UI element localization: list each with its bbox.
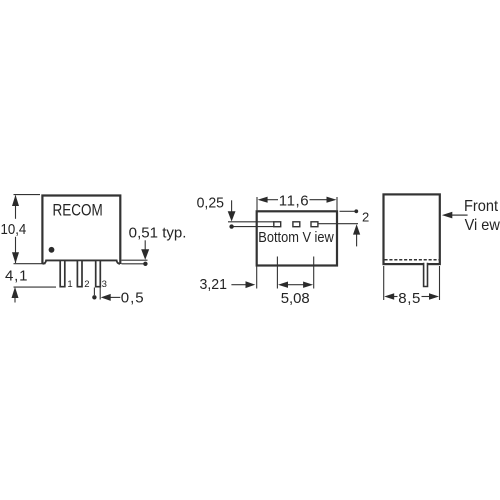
dim 8,5 left extension line: [383, 266, 385, 300]
dim 5,08 left extension line: [276, 257, 278, 289]
dim 11,6 left extension line: [256, 197, 258, 210]
svg-text:3: 3: [102, 279, 107, 290]
svg-text:1: 1: [67, 279, 72, 290]
svg-text:10,4: 10,4: [1, 221, 27, 238]
bottom view pad 2: [293, 222, 300, 227]
dim 8,5 right arrowhead: [429, 293, 439, 300]
dim 10,4 bottom arrowhead: [12, 252, 19, 263]
dim 0,51 lower reference line: [122, 263, 146, 265]
pin 2 (side view): [77, 260, 82, 287]
dim 10,4 top arrowhead: [12, 195, 19, 206]
svg-text:4,1: 4,1: [5, 268, 28, 285]
dim 5,08 left arrowhead: [278, 282, 288, 288]
front view pin: [424, 263, 428, 287]
svg-text:3,21: 3,21: [200, 276, 228, 293]
dim 0,5 right witness line: [99, 288, 101, 300]
dim 10,4 top extension line: [14, 194, 41, 196]
dim 4,1 bottom arrow: [14, 297, 16, 303]
dim 0,51 dot: [143, 262, 147, 266]
dim 2 top reference line with dot: [340, 210, 356, 212]
dim 5,08 dimension line: [288, 284, 304, 286]
pin 1 (side view): [60, 260, 65, 287]
svg-text:Vi ew: Vi ew: [465, 217, 500, 234]
svg-text:0,51 typ.: 0,51 typ.: [129, 225, 187, 242]
svg-text:RECOM: RECOM: [53, 202, 103, 220]
dim 11,6 dimension line right: [310, 199, 328, 201]
svg-text:Front: Front: [464, 198, 499, 215]
front view label arrow: [452, 214, 468, 216]
dim 10,4 / 4,1 shared extension line: [14, 263, 46, 265]
dim 4,1 lower extension line: [14, 286, 57, 288]
svg-text:Bottom V iew: Bottom V iew: [258, 230, 334, 246]
dim 0,5 left witness line with dot: [93, 288, 95, 296]
side view body bottom standoff line: [43, 260, 121, 263]
dim 11,6 right extension line: [336, 197, 338, 210]
svg-text:11,6: 11,6: [279, 193, 309, 210]
dim 2 up arrow: [356, 234, 358, 246]
dim 8,5 left arrowhead: [384, 293, 394, 300]
dim 8,5 dimension line left: [394, 296, 398, 298]
dim 5,08 right arrowhead: [303, 282, 313, 288]
dim 3,21 extension line (box left edge): [256, 267, 258, 289]
dim 3,21 leader arrow: [231, 284, 246, 286]
dim 0,25 pad bottom line: [232, 226, 274, 228]
pin 3 (side view): [96, 260, 101, 287]
dim 0,25 dot: [229, 224, 233, 228]
dim 5,08 right extension line: [313, 257, 315, 289]
dim 8,5 right extension line: [439, 266, 441, 300]
dim 2 pad level line: [318, 223, 358, 225]
front view body outline: [384, 194, 440, 264]
svg-text:2: 2: [362, 209, 369, 224]
svg-text:2: 2: [84, 279, 89, 290]
dim 0,25 leader arrow: [231, 200, 233, 212]
bottom view pad 3: [311, 222, 318, 227]
dim 11,6 dimension line left: [267, 199, 278, 201]
bottom view pad 1: [274, 222, 281, 227]
svg-text:5,08: 5,08: [281, 290, 310, 307]
dim 0,25 pad top line: [228, 221, 274, 223]
svg-text:0,5: 0,5: [121, 289, 144, 306]
dim 11,6 left arrowhead: [258, 197, 268, 203]
bottom view body outline: [257, 211, 337, 265]
dim 8,5 dimension line right: [422, 296, 431, 298]
front view seating dashed line: [385, 259, 440, 261]
dim 0,5 arrow: [110, 296, 120, 298]
side view body outline: [42, 196, 120, 265]
svg-text:8,5: 8,5: [398, 290, 420, 307]
dim 11,6 right arrowhead: [327, 197, 337, 203]
dim 0,51 upper reference line: [122, 259, 148, 261]
svg-text:0,25: 0,25: [197, 194, 224, 211]
dim 10,4 dimension line: [15, 196, 17, 219]
side view seating line over pins: [46, 259, 117, 261]
dim 0,51 typ. leader arrow: [144, 240, 146, 250]
pin1 polarity dot: [49, 247, 55, 253]
